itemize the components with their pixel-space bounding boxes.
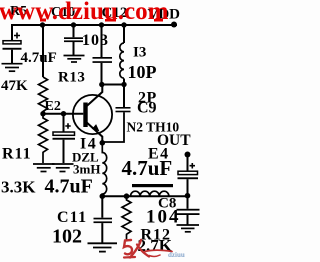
wire stub cap C12 <box>101 25 103 57</box>
wire cap103 to ground <box>73 42 75 55</box>
inductor I4 DZL 3mH <box>102 143 106 196</box>
node rail junction A <box>40 22 45 27</box>
capacitor electrolytic 4.7uF left <box>3 33 22 50</box>
wire I3 bottom stub <box>123 79 125 85</box>
wire C8 to ground <box>187 215 189 225</box>
ground G3 under R11 <box>33 164 55 172</box>
svg-text:I3: I3 <box>133 45 146 61</box>
wire C8 stub <box>187 196 189 209</box>
svg-text:R13: R13 <box>58 70 85 86</box>
wire stub cap1 <box>11 25 13 41</box>
wire E2 to ground <box>63 140 65 163</box>
wire C11 to ground <box>101 223 103 242</box>
svg-text:4.7uF: 4.7uF <box>21 50 57 66</box>
svg-text:4.7uF: 4.7uF <box>122 156 173 180</box>
node VDD terminal <box>171 22 177 28</box>
node rail junction B <box>71 22 76 27</box>
node base junction <box>40 111 45 116</box>
node OUT terminal <box>185 152 191 158</box>
node coil C9 junction <box>121 82 126 87</box>
node rail junction C <box>99 22 104 27</box>
node emitter junction <box>100 140 106 146</box>
svg-text:3.3K: 3.3K <box>1 178 36 197</box>
capacitor C8 104 <box>177 209 200 215</box>
wire E4 to rail <box>187 179 189 196</box>
wire top rail VDD <box>11 24 177 26</box>
watermark red logo bottom <box>124 240 172 258</box>
svg-text:C11: C11 <box>57 209 87 226</box>
node rail R12 junction <box>124 193 130 199</box>
svg-text:47K: 47K <box>1 78 28 94</box>
capacitor C11 102 <box>101 196 103 218</box>
ground G1 <box>2 64 23 71</box>
svg-text:103: 103 <box>82 32 109 49</box>
watermark underline dashes <box>40 19 163 22</box>
svg-text:E2: E2 <box>45 99 61 114</box>
node E2 junction <box>61 111 66 116</box>
capacitor electrolytic E2 4.7uF <box>53 123 76 139</box>
svg-text:4.7uF: 4.7uF <box>45 176 93 198</box>
wire OUT to E4 <box>187 155 189 172</box>
capacitor C9 2P <box>116 107 131 112</box>
node rail junction D <box>121 22 126 27</box>
node rail I4 C11 junction <box>100 193 106 199</box>
ground G4 under E2 <box>52 164 74 172</box>
capacitor 103 <box>64 37 83 42</box>
svg-text:R11: R11 <box>2 146 32 163</box>
inductor choke with core bar <box>131 184 174 196</box>
wire collector cross wire <box>102 84 124 86</box>
wire C9 top stub <box>123 85 125 108</box>
resistor R12 2.7K <box>122 196 131 241</box>
wire C9 bottom L to emitter <box>102 112 124 142</box>
wire bottom rail <box>102 195 187 197</box>
svg-text:102: 102 <box>52 226 82 248</box>
svg-text:www.dziuu.com: www.dziuu.com <box>0 0 169 25</box>
svg-text:dziuu: dziuu <box>168 251 185 259</box>
svg-text:3mH: 3mH <box>73 162 100 177</box>
wire stub cap 103 <box>73 25 75 37</box>
ground G6 under C11 <box>88 243 118 251</box>
resistor R11 3.3K <box>39 114 48 163</box>
wire stub I3 top <box>123 25 125 43</box>
wire base wire <box>43 113 83 115</box>
inductor I3 <box>120 43 124 78</box>
wire cap C12 to collector node <box>101 63 103 85</box>
svg-text:C9: C9 <box>137 100 157 117</box>
wire cap1 to ground <box>11 50 13 63</box>
node rail C8 E4 junction <box>185 193 191 199</box>
ground G5 under C8 <box>177 225 200 232</box>
wire E2 stub <box>63 114 65 132</box>
svg-text:10P: 10P <box>128 62 157 82</box>
resistor R13 47K <box>39 77 48 114</box>
svg-text:104: 104 <box>146 207 181 228</box>
transistor N2 TH10 <box>73 85 112 144</box>
wire stub R13 top <box>42 25 44 77</box>
capacitor electrolytic E4 4.7uF <box>178 163 199 179</box>
ground G2 under 103 <box>64 56 85 63</box>
capacitor C12 <box>93 57 113 63</box>
node collector junction <box>99 82 104 87</box>
